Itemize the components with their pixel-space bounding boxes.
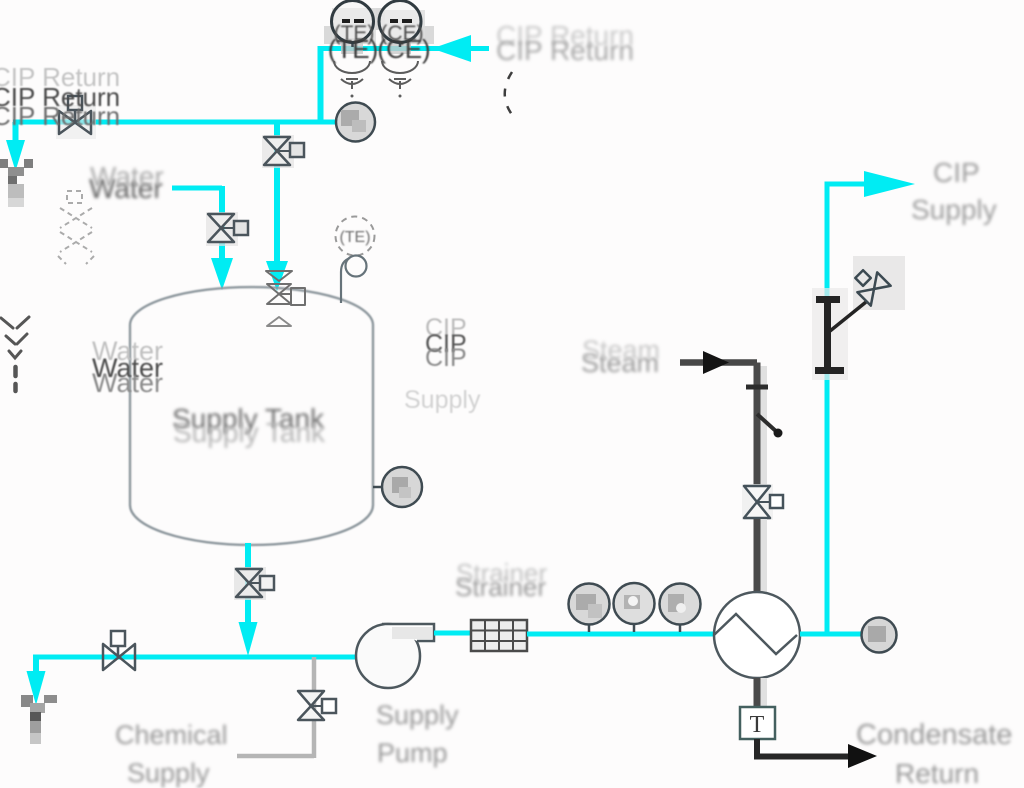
ghost drain funnel symbol left edge xyxy=(1,317,29,391)
svg-text:(TE): (TE) xyxy=(328,34,379,64)
drain symbol upper left xyxy=(0,159,33,207)
wire: steam line xyxy=(680,359,757,366)
wire: CIP return riser xyxy=(318,46,324,122)
heat exchanger HX1 xyxy=(714,592,800,678)
relief valve assembly on riser xyxy=(812,256,905,380)
svg-text:Return: Return xyxy=(895,758,979,788)
arrow: left drain xyxy=(6,140,25,171)
svg-text:Chemical: Chemical xyxy=(115,720,228,750)
svg-text:T: T xyxy=(750,712,765,738)
svg-text:CIP Return: CIP Return xyxy=(0,101,120,131)
svg-text:(CE): (CE) xyxy=(377,34,430,64)
svg-text:Supply: Supply xyxy=(911,194,997,225)
svg-text:Supply: Supply xyxy=(404,386,481,414)
instrument CE top circle xyxy=(379,1,425,55)
drain symbol lower left xyxy=(21,695,57,744)
spray valve assembly at tank inlet xyxy=(266,271,305,326)
instrument TE dashed ghost at tank top xyxy=(336,217,375,256)
label: Supply Tank xyxy=(172,403,326,448)
svg-text:CIP: CIP xyxy=(425,344,467,372)
instrument bubble on header xyxy=(336,103,375,142)
mosaic blocks near top circles xyxy=(324,8,434,44)
ghost text (TE)(CE) rows xyxy=(328,22,431,64)
arrow: steam flow xyxy=(703,351,729,374)
wire: left drain drop xyxy=(13,122,19,146)
svg-text:Strainer: Strainer xyxy=(456,558,547,588)
condensate line from HX xyxy=(761,678,768,707)
svg-text:Water: Water xyxy=(92,368,163,398)
wire: chemical supply (gray) xyxy=(237,754,314,759)
valve V4 tank outlet xyxy=(234,567,274,600)
instrument bubble at HX outlet xyxy=(862,618,897,653)
ghost arcs below TE/CE xyxy=(334,61,418,89)
instrument bubble on tank right xyxy=(373,467,422,507)
valve V5 on suction header xyxy=(103,631,135,670)
label: Supply Pump xyxy=(376,700,459,768)
tick on steam pipe xyxy=(746,385,768,390)
instrument bubble FI xyxy=(660,584,701,633)
svg-text:CIP: CIP xyxy=(933,157,980,188)
label: Condensate Return xyxy=(856,719,1012,788)
instrument TE top circle xyxy=(332,1,377,55)
svg-text:Condensate: Condensate xyxy=(856,719,1012,751)
ghost valve below V1 xyxy=(58,191,94,264)
label: CIP Supply (at tank, ghosted) xyxy=(404,314,481,414)
svg-text:Water: Water xyxy=(90,161,164,192)
valve V6 chemical xyxy=(298,691,336,720)
wire: CIP supply riser xyxy=(825,186,830,637)
vent gooseneck on tank top xyxy=(341,256,367,304)
arrow: condensate return (points right) xyxy=(848,744,877,768)
wire: HX outlet xyxy=(800,632,862,637)
valve V1 on return header xyxy=(56,96,96,139)
tank T1 Supply Tank xyxy=(130,287,373,545)
arrow: water into tank xyxy=(211,258,233,290)
steam trap xyxy=(740,707,775,739)
svg-text:Supply: Supply xyxy=(127,758,210,788)
arrow: outlet into suction header xyxy=(239,622,258,656)
wire: pump outlet xyxy=(434,631,471,636)
svg-text:Pump: Pump xyxy=(377,738,448,768)
pump P1 supply pump xyxy=(356,624,434,688)
label: CIP Return (right of top arrow, mosaic) xyxy=(496,20,634,66)
wire: discharge line xyxy=(527,632,714,637)
arrow: CIP return flow (points left) xyxy=(432,35,471,62)
wire: suction header xyxy=(36,655,358,660)
arrow: CIP supply (points right) xyxy=(864,171,915,197)
svg-text:CIP Return: CIP Return xyxy=(496,35,634,66)
arrow: left drain lower xyxy=(27,671,46,705)
wire: CIP supply branch to tank xyxy=(274,122,280,265)
arrow: branch into tank xyxy=(266,261,288,291)
valve V3 on branch xyxy=(262,135,304,168)
label: Water (at tank, ghosted) xyxy=(92,336,163,398)
label: Strainer xyxy=(455,558,547,602)
svg-text:Supply: Supply xyxy=(376,700,459,730)
wire: return header xyxy=(13,120,336,125)
wire: water inlet xyxy=(172,186,222,191)
valve V7 steam xyxy=(742,484,783,520)
label: Chemical Supply xyxy=(115,720,228,788)
label: Water (upper mosaic) xyxy=(89,161,164,204)
ghost paren arc below right label xyxy=(505,72,513,116)
steam tap diagonal xyxy=(757,414,778,433)
wire: steam to HX xyxy=(761,519,768,592)
svg-text:Supply Tank: Supply Tank xyxy=(173,417,326,448)
wire: condensate to return xyxy=(754,739,849,757)
wire: tank outlet xyxy=(245,543,251,630)
label: CIP Supply (top right) xyxy=(911,157,997,225)
wire: CIP return top line xyxy=(318,46,489,51)
instrument bubble PI xyxy=(569,584,610,633)
svg-text:Steam: Steam xyxy=(582,335,660,365)
label: CIP Return (left, ghosted copies) xyxy=(0,62,120,131)
svg-text:(TE): (TE) xyxy=(339,229,370,246)
instrument bubble TI xyxy=(614,583,655,632)
strainer S1 xyxy=(471,620,527,651)
valve V2 on water line xyxy=(206,212,248,246)
